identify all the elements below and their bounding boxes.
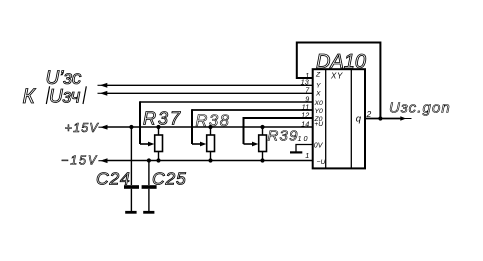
svg-text:10: 10 (298, 134, 310, 143)
junction R39 top on +15V (260, 125, 264, 129)
junction output/feedback (378, 116, 382, 120)
svg-text:−U: −U (317, 159, 326, 166)
svg-text:Uзс.gоn: Uзс.gоn (389, 100, 451, 117)
svg-text:Y: Y (316, 83, 321, 90)
pin numbers (298, 71, 311, 160)
multiplier IC DA10 box (313, 69, 365, 168)
svg-text:X0: X0 (314, 100, 324, 107)
resistor R38 (trimmer) (192, 127, 215, 161)
wire +15V rail with left arrow (103, 126, 313, 128)
junction C25 on -15V (147, 158, 151, 162)
svg-text:R38: R38 (196, 112, 231, 130)
svg-text:X: X (315, 91, 321, 98)
ground C25 (143, 211, 154, 214)
svg-text:−15V: −15V (61, 154, 98, 168)
svg-text:q: q (356, 113, 362, 124)
svg-text:Uзч: Uзч (49, 87, 80, 108)
junction R37 bottom on -15V (156, 158, 160, 162)
svg-text:1: 1 (305, 151, 309, 160)
junction R38 top on +15V (208, 125, 212, 129)
svg-text:+15V: +15V (65, 121, 100, 135)
svg-text:0V: 0V (314, 143, 324, 150)
wire 0V (pin 10) to ground (296, 145, 313, 152)
pin labels column (314, 72, 326, 167)
svg-text:R39: R39 (268, 127, 299, 144)
svg-text:DA10: DA10 (316, 51, 366, 73)
svg-text:14: 14 (301, 119, 309, 128)
svg-text:Z: Z (315, 72, 321, 79)
junction R39 bottom on -15V (260, 158, 264, 162)
junction C24 on +15V (129, 125, 133, 129)
wire X0 offset (pin 9) (140, 101, 313, 103)
svg-text:C25: C25 (152, 168, 187, 188)
svg-text:XY: XY (330, 72, 343, 81)
wire Z0 offset (pin 12) (244, 117, 313, 119)
capacitor C24 (124, 127, 139, 211)
wire Y0 offset (pin 11) (192, 109, 313, 111)
resistor R39 (trimmer) (244, 127, 267, 161)
wire output with right arrow (365, 118, 402, 120)
wire feedback loop (output to Z input) (297, 43, 381, 119)
resistor R37 (trimmer) (140, 127, 163, 161)
svg-text:C24: C24 (96, 168, 131, 188)
capacitor C25 (142, 161, 157, 212)
svg-text:2: 2 (366, 109, 372, 119)
junction R38 bottom on -15V (208, 158, 212, 162)
wire Y input (U'zs) with left arrow (103, 84, 313, 86)
svg-text:R37: R37 (143, 108, 182, 128)
ground 0V (290, 151, 302, 153)
wire X input (|Uzch|) with left arrow (103, 92, 313, 94)
svg-text:12: 12 (301, 110, 309, 119)
wire -15V rail with left arrow (103, 160, 313, 162)
svg-text:Y0: Y0 (315, 108, 324, 115)
svg-text:К: К (23, 85, 37, 108)
junction R37 top on +15V (156, 125, 160, 129)
svg-text:+U: +U (314, 121, 323, 128)
ground C24 (125, 211, 136, 214)
